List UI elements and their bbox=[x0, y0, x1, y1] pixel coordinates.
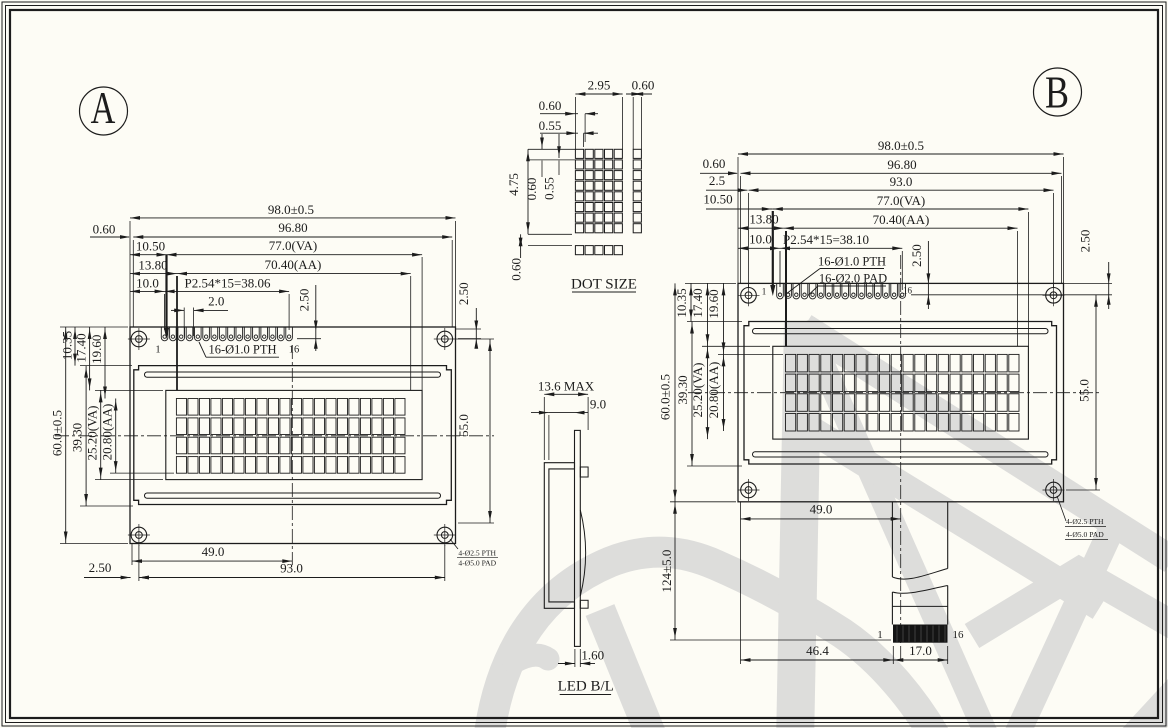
view B: bottom slot bbox=[753, 452, 1049, 457]
svg-text:16: 16 bbox=[903, 286, 913, 296]
view A dim 2.50 right vertical bbox=[475, 308, 477, 343]
led b/l: top tab bbox=[580, 467, 588, 477]
view A horizontal centerline bbox=[55, 435, 494, 437]
svg-text:10.50: 10.50 bbox=[136, 239, 165, 254]
svg-text:DOT SIZE: DOT SIZE bbox=[571, 277, 637, 293]
view A dim 17.40 bbox=[89, 327, 91, 390]
view B dim P2.54*15=38.10 bbox=[780, 247, 902, 249]
svg-text:98.0±0.5: 98.0±0.5 bbox=[268, 202, 314, 217]
view B: mounting holes bbox=[741, 288, 757, 304]
svg-text:0.60: 0.60 bbox=[509, 258, 524, 281]
svg-text:0.60: 0.60 bbox=[539, 98, 562, 113]
svg-text:1.60: 1.60 bbox=[581, 648, 604, 663]
svg-text:13.80: 13.80 bbox=[749, 212, 778, 227]
view A dim 93.0 bbox=[139, 577, 445, 579]
svg-text:17.0: 17.0 bbox=[909, 643, 932, 658]
view B AA-left extension line bbox=[785, 231, 787, 346]
svg-text:39.30: 39.30 bbox=[675, 375, 690, 404]
view A: character grid 20x4 bbox=[176, 399, 186, 416]
svg-text:0.60: 0.60 bbox=[632, 78, 655, 93]
svg-text:20.80(AA): 20.80(AA) bbox=[100, 404, 115, 461]
view B dim 124+-5.0 bbox=[674, 502, 676, 640]
svg-text:49.0: 49.0 bbox=[810, 502, 833, 517]
view A: bezel outline with stepped corners bbox=[134, 366, 452, 505]
dot size dim 0.60 right bbox=[626, 93, 652, 95]
dot size detail: 5x8 dot matrix bbox=[575, 149, 583, 158]
svg-text:10.35: 10.35 bbox=[60, 331, 75, 360]
view B dim 10.0 bbox=[738, 247, 780, 249]
watermark logo stroke: chevron bbox=[972, 571, 1168, 636]
view A dim 10.50 bbox=[130, 254, 167, 256]
svg-text:96.80: 96.80 bbox=[887, 157, 916, 172]
dot size dim 2.95 bbox=[575, 93, 622, 95]
svg-text:17.40: 17.40 bbox=[74, 333, 89, 362]
svg-text:A: A bbox=[91, 82, 116, 133]
svg-text:93.0: 93.0 bbox=[890, 174, 913, 189]
view B VA extension line thick with arrow bbox=[772, 211, 774, 288]
view A: pin header pads 1-16 bbox=[161, 328, 168, 341]
svg-text:19.60: 19.60 bbox=[706, 289, 721, 318]
svg-text:2.0: 2.0 bbox=[208, 294, 224, 309]
svg-text:93.0: 93.0 bbox=[280, 561, 303, 576]
svg-text:4-Ø2.5 PTH: 4-Ø2.5 PTH bbox=[1066, 517, 1104, 526]
view B dim 70.40(AA) bbox=[784, 227, 1018, 229]
view B dim 46.4 bbox=[741, 659, 894, 661]
watermark logo stroke: arch foot toe bbox=[514, 655, 548, 662]
watermark logo stroke: letter A right leg bbox=[804, 322, 991, 728]
view A AA-left extension line bbox=[176, 276, 178, 390]
watermark logo stroke: upper diagonal band bbox=[804, 327, 1168, 560]
view B dim 2.50 right vertical bbox=[1108, 262, 1110, 309]
view B dim 10.50 bbox=[706, 208, 773, 210]
view A: top slot bbox=[145, 372, 441, 377]
view B dim 98.0+-0.5 bbox=[738, 153, 1064, 155]
view B dim 93.0 bbox=[749, 189, 1054, 191]
svg-text:1: 1 bbox=[762, 287, 767, 297]
watermark logo stroke: right slash bbox=[1012, 526, 1113, 728]
dot size dim 4.75 vertical bbox=[527, 149, 529, 234]
view B dim 96.80 bbox=[741, 172, 1062, 174]
view A dim 98.0+-0.5 bbox=[130, 217, 456, 219]
svg-text:13.80: 13.80 bbox=[138, 258, 167, 273]
view B horizontal centerline bbox=[688, 392, 1100, 394]
svg-text:70.40(AA): 70.40(AA) bbox=[265, 257, 322, 272]
svg-text:9.0: 9.0 bbox=[590, 397, 606, 412]
svg-text:2.95: 2.95 bbox=[588, 78, 611, 93]
svg-text:19.60: 19.60 bbox=[89, 335, 104, 364]
view A dim 77.0(VA) bbox=[167, 254, 423, 256]
view A VA/pin1 extension line thick with arrow bbox=[165, 255, 167, 331]
view B dim 17.0 bbox=[893, 659, 947, 661]
svg-text:1: 1 bbox=[155, 345, 160, 356]
svg-text:2.50: 2.50 bbox=[909, 244, 924, 267]
view A dim 55.0 right bbox=[489, 339, 491, 523]
view A dim 10.35 bbox=[74, 327, 76, 366]
led b/l: bezel channel outline bbox=[544, 463, 574, 609]
svg-text:55.0: 55.0 bbox=[1077, 379, 1092, 402]
svg-text:0.60: 0.60 bbox=[93, 222, 116, 237]
view B tail connector black block bbox=[893, 625, 948, 643]
view B: character grid 20x4 bbox=[786, 354, 796, 372]
svg-text:P2.54*15=38.10: P2.54*15=38.10 bbox=[783, 232, 869, 247]
svg-text:4.75: 4.75 bbox=[506, 173, 521, 196]
dot size detail: separated right column bbox=[633, 149, 641, 158]
dot size dim 0.60 bottom bbox=[520, 234, 522, 258]
svg-text:4-Ø5.0 PAD: 4-Ø5.0 PAD bbox=[458, 559, 496, 568]
svg-text:124±5.0: 124±5.0 bbox=[659, 550, 674, 593]
svg-text:60.0±0.5: 60.0±0.5 bbox=[658, 374, 673, 420]
view B vertical centerline bbox=[900, 255, 902, 662]
view B dim 20.80(AA) bbox=[723, 354, 725, 431]
watermark logo stroke: large arch bbox=[488, 552, 940, 728]
dot size detail: separated bottom row bbox=[575, 246, 583, 255]
view B dim 13.80 bbox=[738, 227, 784, 229]
view B dim 10.35 bbox=[690, 283, 692, 321]
svg-text:2.50: 2.50 bbox=[1078, 230, 1093, 253]
view B: solder pads 1-16 bbox=[777, 284, 784, 299]
view A dim P2.54*15=38.06 bbox=[165, 290, 290, 292]
watermark logo stroke: letter A left leg bbox=[795, 322, 803, 728]
view label A circle bbox=[80, 87, 128, 135]
svg-text:2.50: 2.50 bbox=[297, 289, 312, 312]
led b/l: lens arc bbox=[580, 510, 585, 596]
view A vertical centerline bbox=[291, 345, 293, 565]
svg-text:70.40(AA): 70.40(AA) bbox=[873, 212, 930, 227]
view B: top slot bbox=[753, 329, 1049, 334]
svg-text:1: 1 bbox=[877, 629, 883, 641]
svg-text:0.55: 0.55 bbox=[542, 177, 557, 200]
view A pin1 extension line bbox=[164, 294, 166, 330]
view label B circle bbox=[1034, 68, 1082, 116]
svg-text:20.80(AA): 20.80(AA) bbox=[706, 362, 721, 419]
view A dim 2.50 bottom left bbox=[84, 577, 131, 579]
svg-text:4-Ø2.5 PTH: 4-Ø2.5 PTH bbox=[458, 549, 496, 558]
view B tail upper segment bbox=[891, 502, 893, 577]
view B dim 2.50 mid vertical bbox=[927, 241, 929, 309]
view A: mounting holes bbox=[131, 331, 147, 347]
view A: PCB outline bbox=[130, 327, 456, 544]
svg-text:25.20(VA): 25.20(VA) bbox=[690, 362, 705, 417]
view B dim 17.40 bbox=[707, 283, 709, 346]
view A left extension line at PCB top bbox=[60, 326, 128, 328]
svg-text:10.0: 10.0 bbox=[136, 276, 159, 291]
svg-text:96.80: 96.80 bbox=[278, 220, 307, 235]
view B dim 2.5 bbox=[706, 189, 748, 191]
view A dim 96.80 bbox=[133, 236, 452, 238]
view A: bottom slot bbox=[145, 493, 441, 498]
view A dim 39.30 bbox=[85, 366, 87, 506]
view B dim 19.60 bbox=[723, 283, 725, 354]
view B: PCB outline bbox=[738, 283, 1064, 501]
svg-text:77.0(VA): 77.0(VA) bbox=[269, 238, 318, 253]
view B dim 39.30 bbox=[691, 322, 693, 467]
svg-text:2.50: 2.50 bbox=[89, 560, 112, 575]
svg-text:60.0±0.5: 60.0±0.5 bbox=[50, 410, 65, 456]
view B dim 77.0(VA) bbox=[773, 208, 1029, 210]
view B dim 25.20(VA) bbox=[707, 346, 709, 439]
view B dim 49.0 bbox=[741, 518, 901, 520]
view B tail lower segment with break bbox=[892, 586, 947, 594]
view B left extension line at PCB top bbox=[685, 282, 736, 284]
svg-text:10.0: 10.0 bbox=[749, 232, 772, 247]
svg-text:17.40: 17.40 bbox=[690, 288, 705, 317]
view A dim 13.80 bbox=[130, 273, 177, 275]
view A dim 19.60 bbox=[104, 327, 106, 399]
view A dim 0.60 bbox=[90, 236, 129, 238]
view B dim 55.0 right bbox=[1095, 295, 1097, 490]
svg-text:16-Ø1.0 PTH: 16-Ø1.0 PTH bbox=[208, 343, 276, 357]
svg-text:46.4: 46.4 bbox=[806, 643, 829, 658]
svg-text:13.6 MAX: 13.6 MAX bbox=[538, 379, 595, 394]
watermark logo stroke: lower diagonal band bbox=[808, 428, 1100, 607]
view A dim 60.0+-0.5 bbox=[65, 327, 67, 544]
dot size row reference lines bbox=[528, 148, 575, 150]
led b/l: bottom tab bbox=[580, 600, 588, 608]
svg-text:LED B/L: LED B/L bbox=[558, 679, 614, 695]
svg-text:2.50: 2.50 bbox=[456, 282, 471, 305]
svg-text:P2.54*15=38.06: P2.54*15=38.06 bbox=[184, 276, 271, 291]
led b/l: vertical PCB bar bbox=[575, 430, 581, 646]
watermark logo stroke: corner wedge bbox=[1126, 683, 1168, 728]
view A dim 20.80(AA) bbox=[115, 399, 117, 474]
watermark logo stroke: arch inner leg bbox=[600, 610, 655, 728]
view B dim 0.60 bbox=[700, 172, 737, 174]
svg-text:4-Ø5.0 PAD: 4-Ø5.0 PAD bbox=[1066, 530, 1104, 539]
svg-text:0.55: 0.55 bbox=[539, 118, 562, 133]
svg-text:77.0(VA): 77.0(VA) bbox=[877, 193, 926, 208]
svg-text:39.30: 39.30 bbox=[70, 423, 85, 452]
svg-text:25.20(VA): 25.20(VA) bbox=[85, 405, 100, 460]
svg-text:2.5: 2.5 bbox=[709, 173, 725, 188]
view B pin1 extension line bbox=[779, 251, 781, 287]
svg-text:10.50: 10.50 bbox=[703, 192, 732, 207]
view B dim 60.0+-0.5 bbox=[674, 283, 676, 501]
dot size bottom references bbox=[528, 233, 572, 235]
svg-text:55.0: 55.0 bbox=[456, 414, 471, 437]
svg-text:16-Ø1.0 PTH: 16-Ø1.0 PTH bbox=[818, 255, 886, 269]
view A dim 49.0 bbox=[132, 560, 292, 562]
view B: display window (VA) bbox=[773, 346, 1029, 439]
svg-text:16: 16 bbox=[289, 345, 300, 356]
view B: bezel outline with stepped corners bbox=[744, 322, 1057, 465]
view A dim 10.0 bbox=[130, 290, 165, 292]
svg-text:98.0±0.5: 98.0±0.5 bbox=[878, 138, 924, 153]
view A dim 25.20(VA) bbox=[100, 390, 102, 479]
svg-text:0.60: 0.60 bbox=[524, 178, 539, 201]
svg-text:0.60: 0.60 bbox=[703, 156, 726, 171]
view A: display window (VA) bbox=[166, 390, 422, 479]
svg-text:16: 16 bbox=[953, 629, 965, 641]
view A dim 70.40(AA) bbox=[177, 273, 411, 275]
svg-text:49.0: 49.0 bbox=[202, 544, 225, 559]
svg-text:16-Ø2.0 PAD: 16-Ø2.0 PAD bbox=[819, 272, 887, 286]
view A dim 2.50 mid vertical bbox=[315, 285, 317, 351]
svg-text:B: B bbox=[1045, 68, 1069, 118]
